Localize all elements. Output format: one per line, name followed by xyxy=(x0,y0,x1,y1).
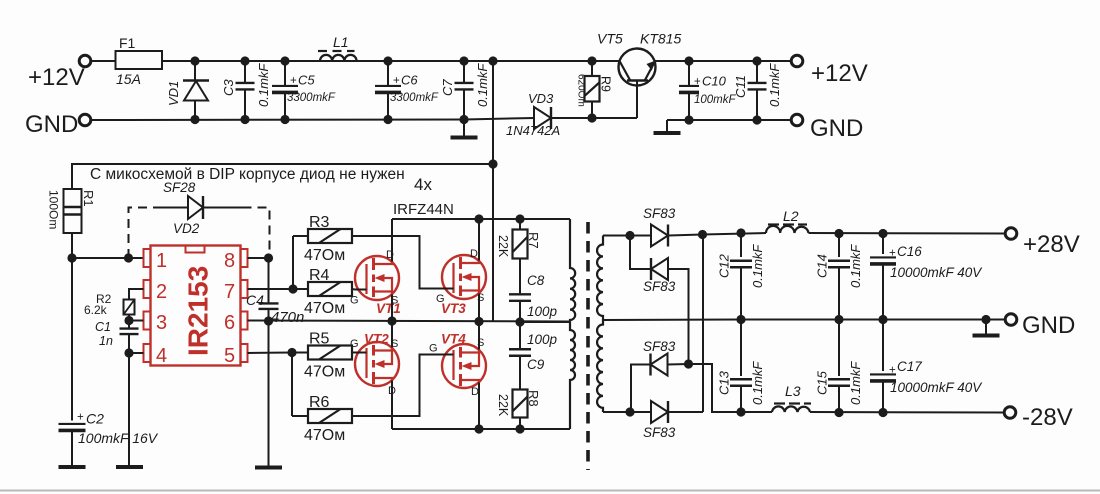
svg-text:100p: 100p xyxy=(527,332,558,347)
VT4 drain wire xyxy=(478,383,480,430)
svg-text:C17: C17 xyxy=(897,359,922,374)
node R8 bottom xyxy=(515,424,524,433)
svg-text:SF83: SF83 xyxy=(643,425,676,440)
svg-text:R9: R9 xyxy=(599,76,613,92)
svg-text:+: + xyxy=(290,75,297,87)
node C3 top xyxy=(240,56,249,65)
wire C1 down to ground xyxy=(128,353,130,466)
svg-text:10000mkF 40V: 10000mkF 40V xyxy=(890,380,983,395)
wire GND rail to VD3 xyxy=(464,118,534,120)
svg-text:KT815: KT815 xyxy=(640,31,681,47)
svg-text:0.1mkF: 0.1mkF xyxy=(475,63,490,107)
diode VD1 xyxy=(166,61,209,120)
transformer secondary winding xyxy=(597,236,603,413)
wire VD3 to R9 bottom xyxy=(552,117,593,119)
wire D4 cathode up to plus rail xyxy=(702,235,704,413)
ground symbol secondary xyxy=(973,320,1000,336)
VT1 drain wire xyxy=(391,219,393,262)
wire pin1 xyxy=(72,257,144,259)
output terminal +12V xyxy=(791,55,868,87)
resistor R8 22K xyxy=(496,390,541,418)
resistor R4 xyxy=(304,267,352,317)
node +12V feed xyxy=(488,56,497,65)
svg-text:0.1mkF: 0.1mkF xyxy=(767,63,782,107)
wire R6 to VT4 gate zigzag xyxy=(352,355,442,417)
transistor VT5 KT815 xyxy=(592,31,681,119)
svg-text:GND: GND xyxy=(25,111,78,138)
drain rail bottom xyxy=(392,428,570,430)
GND rail (terminal to C7) xyxy=(92,119,465,122)
svg-text:4: 4 xyxy=(156,345,167,367)
svg-text:+: + xyxy=(889,248,896,260)
capacitor C3 xyxy=(221,61,271,120)
wire R3 to VT3 gate zigzag xyxy=(352,236,442,289)
resistor R6 xyxy=(304,394,352,444)
svg-text:7: 7 xyxy=(224,281,235,303)
resistor R2 6.2k xyxy=(84,292,135,317)
svg-text:3300mkF: 3300mkF xyxy=(287,92,336,104)
svg-text:8: 8 xyxy=(224,250,235,272)
note text xyxy=(90,166,405,183)
svg-text:G: G xyxy=(429,343,438,355)
svg-text:1: 1 xyxy=(156,250,167,272)
svg-text:100p: 100p xyxy=(527,304,558,319)
diode D2 SF83 xyxy=(643,258,676,294)
IC pins xyxy=(144,249,248,362)
capacitor C13 xyxy=(717,320,766,413)
node R7 top xyxy=(515,214,524,223)
node C14 bottom xyxy=(834,315,843,324)
wire pin3 xyxy=(129,320,144,322)
svg-text:GND: GND xyxy=(1022,312,1075,339)
resistor R3 xyxy=(304,214,352,264)
svg-text:IRFZ44N: IRFZ44N xyxy=(393,201,454,218)
svg-text:VT2: VT2 xyxy=(364,332,389,347)
capacitor C9 100p xyxy=(509,322,558,390)
node C7 bottom xyxy=(459,115,468,124)
svg-text:L3: L3 xyxy=(785,383,801,399)
node R1 bottom pin1 xyxy=(67,253,76,262)
primary center tap wire xyxy=(520,321,570,323)
svg-text:VD1: VD1 xyxy=(166,81,181,106)
svg-text:3: 3 xyxy=(156,312,167,334)
svg-text:22K: 22K xyxy=(496,235,510,258)
VT3 source wire xyxy=(478,294,480,322)
svg-text:R8: R8 xyxy=(526,390,541,407)
svg-text:VT4: VT4 xyxy=(441,332,466,347)
wire pin5 to R5 xyxy=(292,352,308,354)
node C4 bottom pin6 xyxy=(264,316,273,325)
svg-text:L2: L2 xyxy=(783,208,799,224)
node VT1 VT2 source xyxy=(387,316,396,325)
capacitor C12 xyxy=(717,233,766,320)
svg-text:+: + xyxy=(889,365,896,377)
svg-text:2: 2 xyxy=(156,281,167,303)
VT3 drain wire xyxy=(478,219,480,261)
fuse F1 xyxy=(116,35,163,87)
node rectifier minus xyxy=(684,359,693,368)
capacitor C5 3300mkF xyxy=(272,61,336,120)
svg-text:6: 6 xyxy=(224,312,235,334)
wire R5 to VT2 gate xyxy=(352,352,355,354)
svg-text:C13: C13 xyxy=(717,370,732,395)
resistor R1 100Om xyxy=(47,189,97,258)
svg-text:C1: C1 xyxy=(95,320,111,334)
svg-text:47Ом: 47Ом xyxy=(304,427,345,444)
VT4 source wire xyxy=(478,322,480,350)
svg-text:VT3: VT3 xyxy=(441,301,466,316)
secondary bottom wire xyxy=(603,411,630,413)
svg-text:1N4742A: 1N4742A xyxy=(506,123,560,138)
svg-text:C12: C12 xyxy=(717,253,732,278)
svg-text:C16: C16 xyxy=(897,244,922,259)
resistor R9 620Om xyxy=(576,61,613,118)
diode VD2 xyxy=(155,196,243,219)
svg-text:620Om: 620Om xyxy=(576,74,587,107)
capacitor C15 xyxy=(815,320,864,413)
wire +12V rail to VT5 xyxy=(493,60,619,62)
svg-text:1n: 1n xyxy=(99,334,113,348)
svg-text:47Ом: 47Ом xyxy=(304,364,345,381)
node C16 top xyxy=(878,229,887,238)
svg-text:100Om: 100Om xyxy=(47,190,61,229)
node R9 top xyxy=(587,56,596,65)
ground symbol C2 xyxy=(59,465,86,469)
svg-text:10000mkF 40V: 10000mkF 40V xyxy=(890,265,983,280)
svg-text:C3: C3 xyxy=(221,79,236,96)
svg-text:SF83: SF83 xyxy=(643,339,676,354)
node pin4 junction xyxy=(124,348,133,357)
svg-text:SF83: SF83 xyxy=(643,206,676,221)
capacitor C7 xyxy=(440,61,490,120)
wire pin7 xyxy=(248,288,294,290)
output terminal -28V xyxy=(1004,404,1073,431)
GND line right xyxy=(741,319,1005,321)
svg-text:SF83: SF83 xyxy=(643,279,676,294)
label 4x xyxy=(414,175,432,194)
svg-text:C7: C7 xyxy=(440,79,455,96)
node VD1 top xyxy=(190,56,199,65)
diode D3 SF83 xyxy=(643,339,689,376)
ground symbol output xyxy=(654,120,681,133)
plus rail xyxy=(703,233,1005,235)
ground symbol under C4 xyxy=(255,466,282,470)
svg-text:470n: 470n xyxy=(271,309,304,326)
input terminal +12V xyxy=(28,55,91,91)
svg-text:G: G xyxy=(350,295,359,307)
svg-text:R6: R6 xyxy=(309,394,330,411)
svg-text:R4: R4 xyxy=(309,267,330,284)
capacitor C11 xyxy=(733,61,782,120)
svg-text:3300mkF: 3300mkF xyxy=(390,92,439,104)
svg-text:G: G xyxy=(350,338,359,350)
wire R1 node down to C2 xyxy=(71,258,73,421)
wire pin5 xyxy=(248,352,293,355)
svg-text:R3: R3 xyxy=(309,214,330,231)
wire F1 to VD1 node xyxy=(162,60,195,62)
svg-text:F1: F1 xyxy=(119,35,136,51)
wire +12V down-feed xyxy=(492,61,494,322)
node C6 top xyxy=(383,56,392,65)
node C8 bottom xyxy=(515,317,524,326)
svg-text:D: D xyxy=(470,248,478,260)
wire pin2 to R2 xyxy=(129,289,144,300)
node C11 top xyxy=(752,56,761,65)
IC U1 IR2153 body xyxy=(151,246,241,366)
node C6 bottom xyxy=(383,115,392,124)
node rectifier B bottom xyxy=(625,407,634,416)
svg-text:+: + xyxy=(77,412,84,424)
secondary top wire xyxy=(603,235,630,237)
output terminal GND secondary xyxy=(1005,312,1075,339)
node C17 top xyxy=(878,408,887,417)
wire pin7 to R4 xyxy=(293,288,308,290)
input terminal GND xyxy=(25,111,91,138)
wire C4 node down to ground xyxy=(268,321,270,466)
wire top of IC section xyxy=(72,164,493,189)
wire minus node to minus rail xyxy=(689,364,742,412)
diode D1 SF83 xyxy=(630,206,703,247)
wire pin4 xyxy=(129,352,144,354)
node C10 bottom xyxy=(684,115,693,124)
output terminal GND right xyxy=(791,114,863,142)
mosfet VT4 xyxy=(429,332,486,399)
node VT3 drain xyxy=(474,214,483,223)
svg-text:SF28: SF28 xyxy=(163,180,196,195)
svg-text:0.1mkF: 0.1mkF xyxy=(256,63,271,107)
wire pin8 to C4 node xyxy=(248,257,269,259)
node rectifier plus xyxy=(698,230,707,239)
node C16 bottom xyxy=(878,315,887,324)
top +12V rail (VD1 to C7) xyxy=(195,60,493,62)
svg-text:R1: R1 xyxy=(81,190,96,207)
wire pin7 up to R3 xyxy=(292,236,294,289)
wire pin6 midline xyxy=(248,321,571,322)
svg-text:GND: GND xyxy=(810,115,863,142)
node R9 bottom xyxy=(587,113,596,122)
wire to R6 xyxy=(292,415,308,417)
svg-text:VD2: VD2 xyxy=(173,221,200,236)
node lower feed junction xyxy=(488,159,497,168)
dashed protection box with diode VD2 SF28 xyxy=(129,180,270,258)
svg-text:0.1mkF: 0.1mkF xyxy=(848,361,863,405)
svg-text:C4: C4 xyxy=(246,292,264,308)
svg-text:R7: R7 xyxy=(526,232,541,249)
svg-text:C2: C2 xyxy=(86,411,104,427)
svg-text:C9: C9 xyxy=(527,357,545,372)
node VD1 bottom xyxy=(190,115,199,124)
svg-text:5: 5 xyxy=(224,345,235,367)
wire A down to D2 xyxy=(630,236,651,270)
drain rail top xyxy=(392,218,570,220)
node C14 top xyxy=(834,229,843,238)
capacitor C2 100mkF 16V xyxy=(59,411,159,467)
ground symbol below C7 xyxy=(451,120,478,138)
zener diode VD3 1N4742A xyxy=(506,91,560,138)
node C15 bottom xyxy=(834,408,843,417)
capacitor C1 1n xyxy=(95,320,139,353)
diode D4 SF83 xyxy=(630,401,703,440)
capacitor C17 10000mkF 40V xyxy=(870,320,983,413)
svg-text:C10: C10 xyxy=(702,74,727,89)
node pin8 C4 junction xyxy=(264,253,273,262)
transformer core xyxy=(586,222,590,470)
svg-text:G: G xyxy=(436,293,445,305)
mosfet VT2 xyxy=(350,332,399,398)
node dashed-box left xyxy=(124,253,133,262)
wire to R3 xyxy=(293,235,308,237)
wire R2 to pin3 node xyxy=(128,315,130,321)
svg-text:C15: C15 xyxy=(815,370,830,395)
svg-text:VD3: VD3 xyxy=(528,91,554,106)
wire R8 to bottom rail xyxy=(519,418,521,430)
transformer primary winding xyxy=(570,219,575,429)
VT2 source wire xyxy=(391,321,393,348)
svg-text:+12V: +12V xyxy=(811,60,868,87)
svg-text:C8: C8 xyxy=(527,273,545,288)
inductor L3 xyxy=(772,383,811,412)
node C10 top xyxy=(684,56,693,65)
output GND rail xyxy=(667,119,791,121)
svg-text:C14: C14 xyxy=(815,254,830,278)
secondary center tap to GND line xyxy=(603,319,741,322)
node pin7 junction xyxy=(288,284,297,293)
svg-text:С микосхемой в DIP корпусе дио: С микосхемой в DIP корпусе диод не нужен xyxy=(90,166,405,183)
svg-text:-28V: -28V xyxy=(1022,404,1073,431)
svg-text:0.1mkF: 0.1mkF xyxy=(750,244,765,288)
output terminal +28V xyxy=(1005,228,1080,258)
wire VT5 emitter to +12V out xyxy=(656,60,791,62)
svg-text:+12V: +12V xyxy=(28,64,85,91)
capacitor C8 100p xyxy=(509,259,558,323)
capacitor C16 10000mkF 40V xyxy=(870,234,983,320)
node C3 bottom xyxy=(240,115,249,124)
mosfet VT3 xyxy=(436,248,486,316)
wire D3 cathode down to B xyxy=(631,365,651,413)
resistor R5 xyxy=(304,331,352,381)
svg-text:D: D xyxy=(471,386,479,398)
capacitor C4 470n xyxy=(246,258,304,326)
capacitor C14 xyxy=(815,234,864,320)
bottom image border xyxy=(0,490,1100,492)
node C12 bottom C13 top xyxy=(736,315,745,324)
VT2 drain wire xyxy=(391,381,393,430)
node C13 bottom xyxy=(736,407,745,416)
minus rail xyxy=(741,411,1005,414)
resistor R7 22K xyxy=(496,219,541,259)
mosfet VT1 xyxy=(350,249,401,316)
node secondary ground xyxy=(981,315,990,324)
svg-text:C5: C5 xyxy=(298,73,315,88)
svg-text:6.2k: 6.2k xyxy=(84,303,108,317)
node C5 top xyxy=(280,56,289,65)
node C7 top xyxy=(459,56,468,65)
node C11 bottom xyxy=(752,115,761,124)
svg-text:100mkF: 100mkF xyxy=(694,94,737,106)
node pin5 junction xyxy=(287,348,296,357)
node C12 top xyxy=(736,228,745,237)
VT1 source wire xyxy=(391,295,393,322)
svg-text:C6: C6 xyxy=(401,73,418,88)
capacitor C10 100mkF xyxy=(679,61,737,120)
svg-text:C11: C11 xyxy=(733,75,748,98)
svg-text:47Ом: 47Ом xyxy=(304,300,345,317)
node C5 bottom xyxy=(280,115,289,124)
svg-text:VT5: VT5 xyxy=(597,31,623,47)
capacitor C6 3300mkF xyxy=(375,61,439,120)
inductor L2 xyxy=(766,208,809,233)
label IRFZ44N xyxy=(393,201,454,218)
svg-text:22K: 22K xyxy=(496,394,510,417)
svg-text:0.1mkF: 0.1mkF xyxy=(848,244,863,288)
node VT4 drain xyxy=(474,424,483,433)
svg-text:+28V: +28V xyxy=(1023,231,1080,258)
svg-text:+: + xyxy=(393,75,400,87)
svg-text:4x: 4x xyxy=(414,175,432,194)
wire +12V terminal to fuse F1 xyxy=(92,60,116,62)
svg-text:0.1mkF: 0.1mkF xyxy=(750,361,765,405)
node pin3 junction xyxy=(124,316,133,325)
wire pin5 down to R6 xyxy=(291,353,293,417)
svg-text:100mkF 16V: 100mkF 16V xyxy=(78,430,159,446)
wire R4 to VT1 gate xyxy=(352,288,355,291)
node rectifier A top xyxy=(625,231,634,240)
svg-text:IR2153: IR2153 xyxy=(183,266,214,356)
node VT3 VT4 source xyxy=(474,317,483,326)
wire D2 anode down xyxy=(669,269,689,364)
pin numbers xyxy=(156,250,235,367)
ground symbol C1 xyxy=(116,465,143,469)
svg-text:15A: 15A xyxy=(116,71,141,87)
svg-text:L1: L1 xyxy=(333,34,349,50)
svg-text:+: + xyxy=(694,76,701,88)
svg-text:R5: R5 xyxy=(309,331,330,348)
inductor L1 xyxy=(318,34,357,61)
svg-text:47Ом: 47Ом xyxy=(304,247,345,264)
